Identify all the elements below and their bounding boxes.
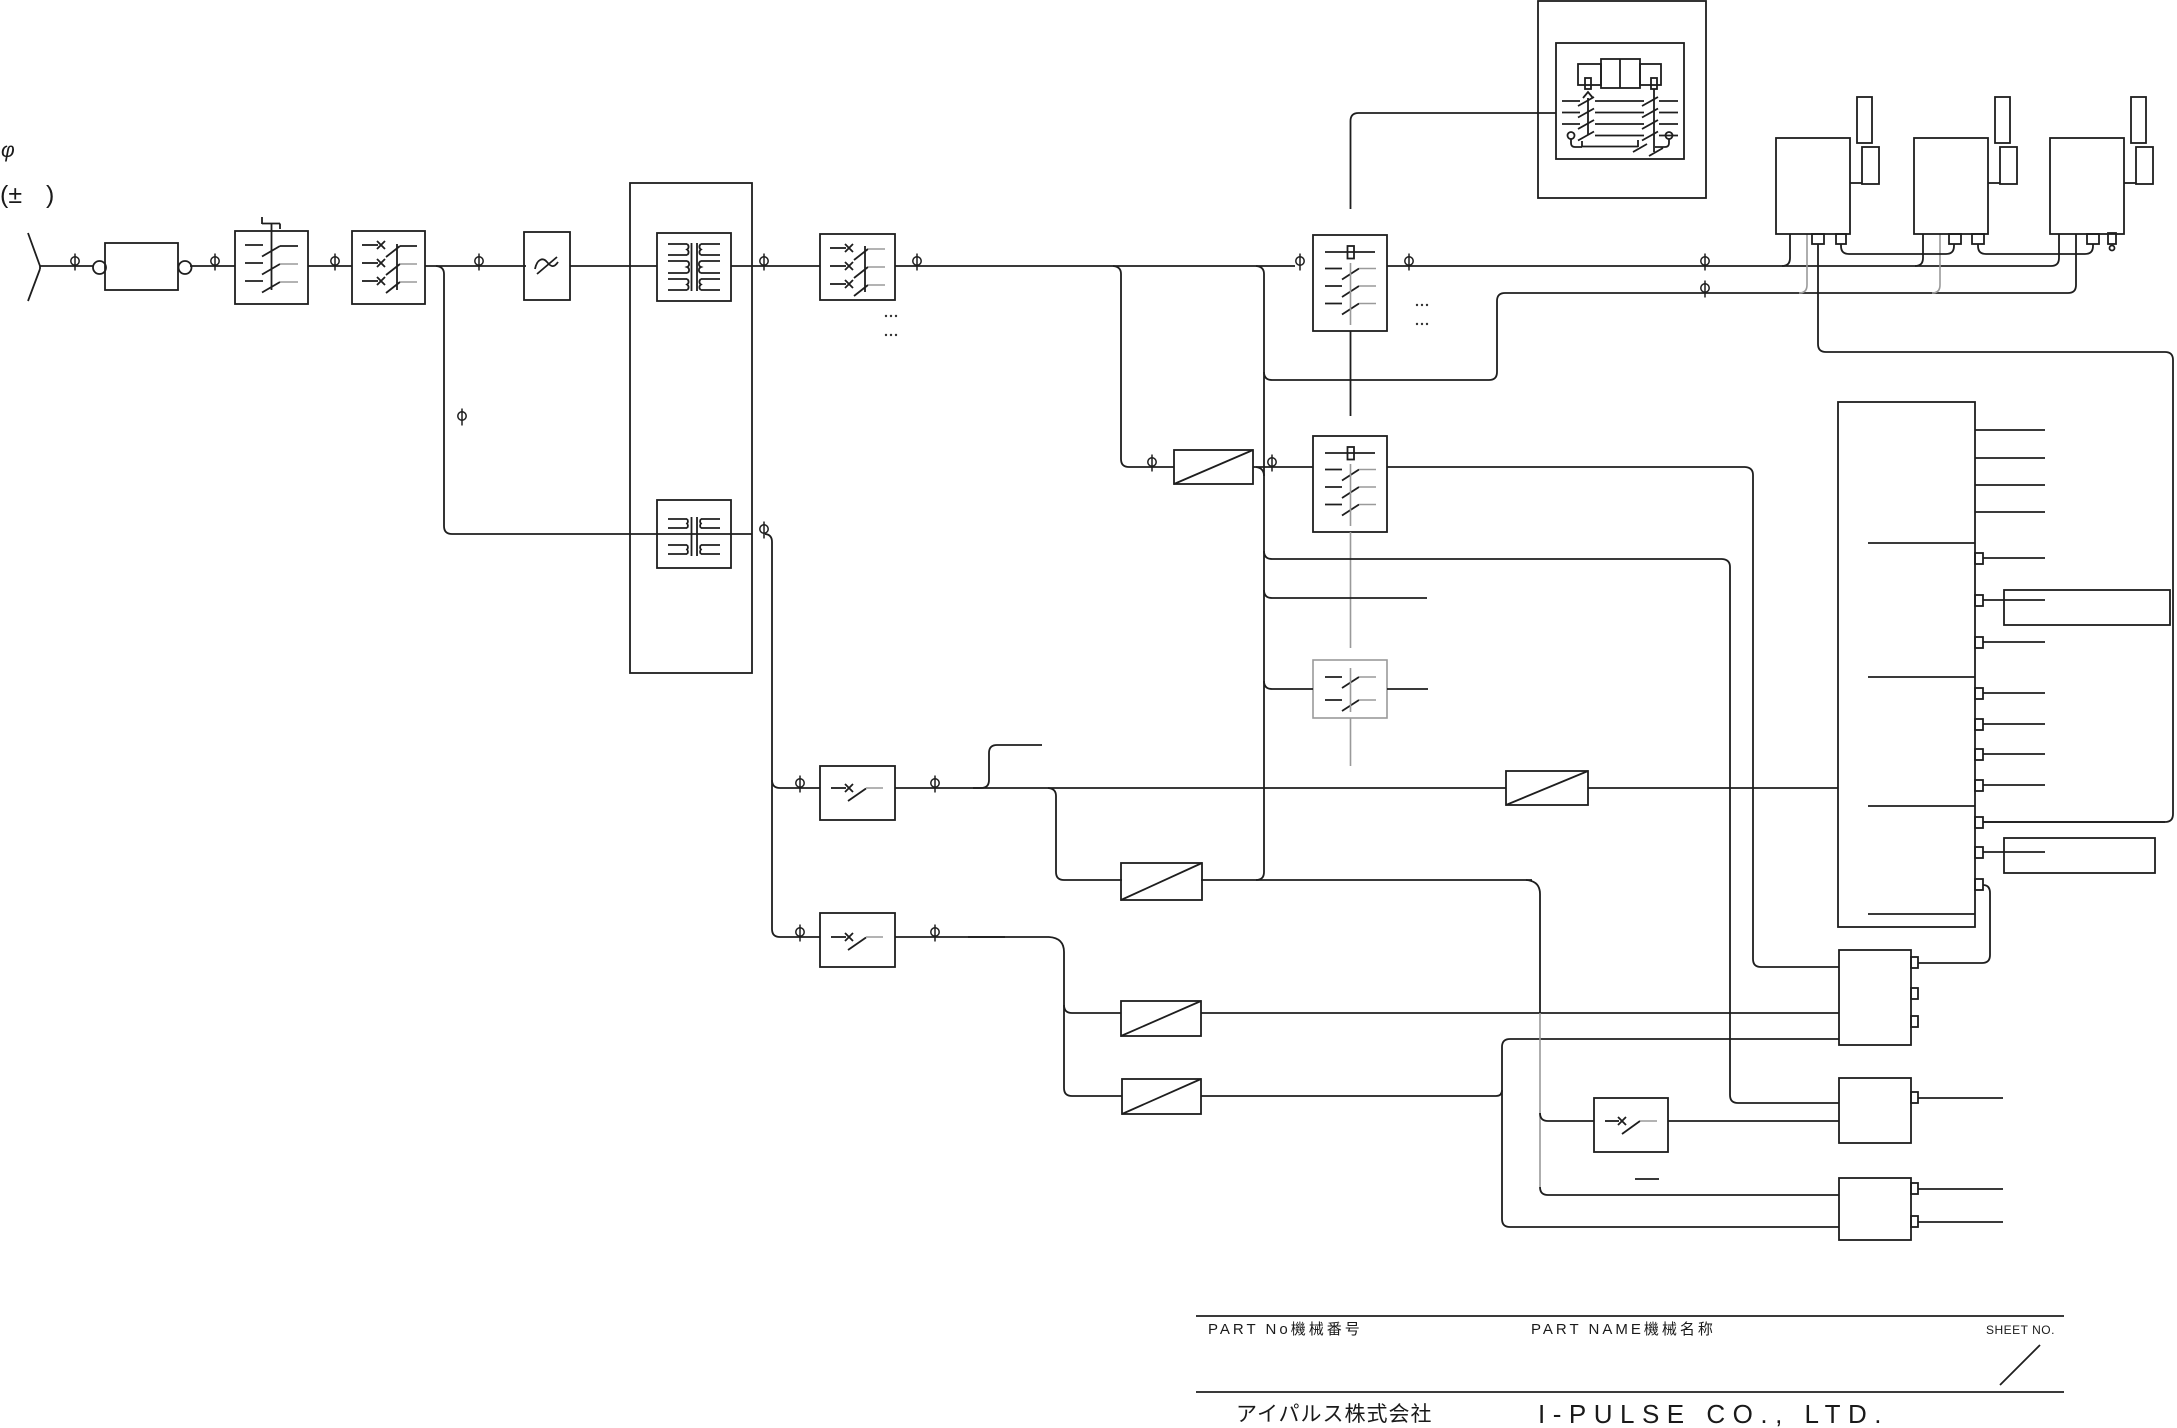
svg-text:I-PULSE CO., LTD.: I-PULSE CO., LTD. (1538, 1399, 1889, 1428)
svg-text:アイパルス株式会社: アイパルス株式会社 (1236, 1403, 1433, 1426)
svg-text:φ: φ (1, 139, 15, 162)
svg-text:(±: (± (0, 181, 22, 209)
svg-text:SHEET NO.: SHEET NO. (1986, 1323, 2055, 1337)
svg-text:PART No機械番号: PART No機械番号 (1208, 1321, 1363, 1338)
svg-text:): ) (46, 181, 54, 209)
svg-text:PART NAME機械名称: PART NAME機械名称 (1531, 1321, 1716, 1338)
